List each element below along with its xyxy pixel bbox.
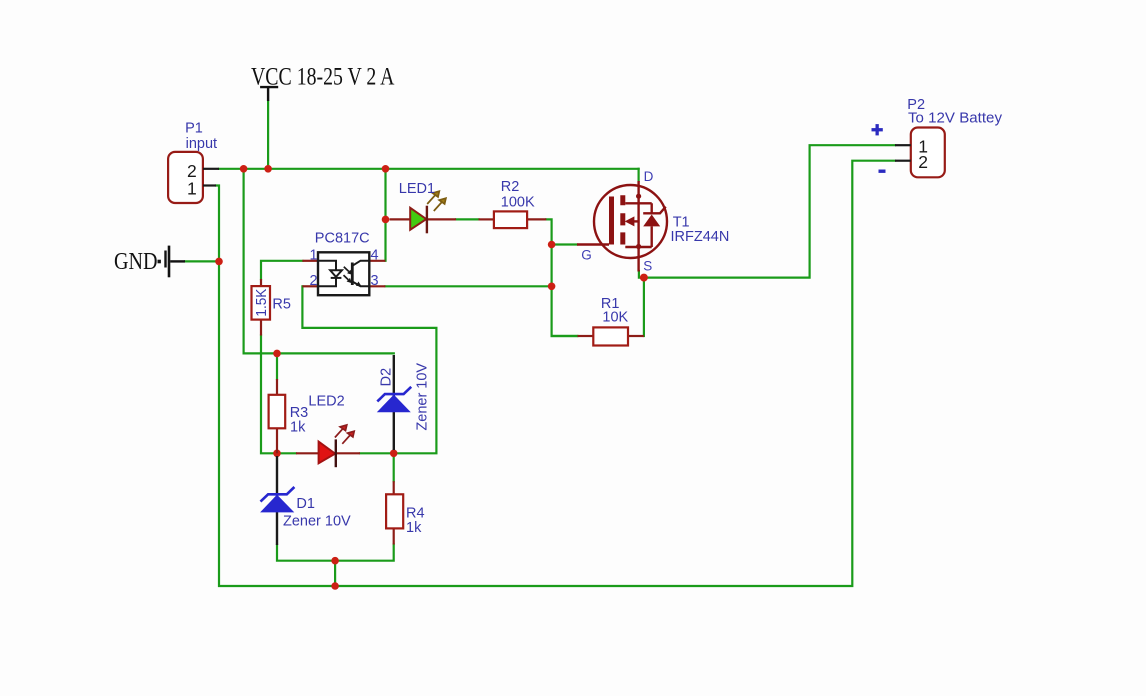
svg-text:2: 2 — [310, 273, 318, 289]
connector P2 — [872, 97, 1003, 177]
wire R4 bottom to row — [277, 545, 394, 561]
wire R2 to gate column — [546, 219, 577, 336]
transistor T1 labels — [581, 169, 729, 273]
node LED2 cathode — [390, 450, 398, 458]
wire LED1 row green part — [456, 218, 479, 220]
wire VCC drop — [267, 101, 269, 169]
wire R1 left green — [552, 335, 578, 337]
svg-text:D2: D2 — [379, 368, 395, 387]
svg-text:4: 4 — [371, 248, 379, 264]
resistor R2 — [479, 179, 547, 228]
VCC supply symbol — [260, 87, 278, 101]
resistor R4 — [386, 481, 424, 544]
wire R1 right up to source — [643, 278, 645, 336]
svg-text:PC817C: PC817C — [315, 230, 370, 246]
node VCC row LED branch — [382, 165, 390, 173]
node LED1 anode — [382, 216, 390, 224]
wire R5 bottom down to LED2 row — [261, 336, 277, 454]
svg-text:1: 1 — [310, 248, 318, 264]
svg-text:To 12V Battey: To 12V Battey — [908, 111, 1003, 127]
JUNCTION DOTS — [215, 165, 648, 590]
node bottom mid lower — [331, 582, 339, 590]
wire mid bottom drop — [334, 561, 336, 586]
wire R4 top — [393, 453, 395, 481]
ground symbol — [158, 246, 186, 278]
wire opto pin2 down right down to LED2 cathode node — [302, 286, 436, 453]
svg-text:P1: P1 — [185, 121, 203, 137]
svg-text:VCC 18-25 V 2 A: VCC 18-25 V 2 A — [251, 64, 395, 91]
node bottom mid upper — [331, 557, 339, 565]
wire drain top green — [637, 169, 639, 181]
svg-text:D: D — [644, 169, 654, 184]
svg-text:Zener 10V: Zener 10V — [283, 514, 351, 530]
resistor R1 — [578, 296, 644, 346]
svg-text:G: G — [581, 248, 592, 263]
svg-text:LED2: LED2 — [308, 393, 344, 409]
svg-text:R5: R5 — [272, 296, 291, 312]
svg-text:1k: 1k — [406, 520, 422, 536]
svg-text:R2: R2 — [501, 179, 520, 195]
svg-text:100K: 100K — [501, 194, 535, 210]
svg-text:Zener 10V: Zener 10V — [415, 363, 431, 431]
node VCC row vcc — [264, 165, 272, 173]
svg-text:1.5K: 1.5K — [254, 288, 270, 316]
svg-text:LED1: LED1 — [399, 181, 435, 197]
node GND — [215, 258, 223, 266]
svg-text:1: 1 — [187, 179, 197, 199]
wire opto pin1 to R5 top — [261, 261, 302, 279]
wire left branch x243 down and row to D2 — [244, 169, 394, 354]
svg-text:input: input — [186, 136, 217, 152]
wire top VCC row — [219, 168, 639, 170]
connector P1 — [168, 121, 219, 203]
diode D1 zener — [260, 456, 351, 545]
svg-text:3: 3 — [371, 273, 379, 289]
LED LED1 — [390, 181, 457, 233]
transistor T1 MOSFET — [577, 181, 667, 272]
node LED2 anode — [273, 450, 281, 458]
optocoupler U1 PC817C — [302, 230, 385, 295]
wire LED2 row right green — [360, 452, 394, 454]
resistor R3 — [269, 379, 309, 453]
node VCC row left — [240, 165, 248, 173]
wire source pin green jog — [639, 271, 644, 278]
wire P1 pin1 to bottom row to P2 pin2 — [216, 161, 895, 586]
wire opto pin3 row — [385, 285, 551, 287]
svg-text:IRFZ44N: IRFZ44N — [671, 229, 730, 245]
svg-text:10K: 10K — [602, 309, 628, 325]
diode D2 zener — [377, 355, 431, 450]
wire x385 vcc to opto pin4 — [384, 169, 386, 261]
resistor R5 — [252, 279, 291, 336]
wire gate lead green — [552, 243, 577, 245]
node gate — [548, 241, 556, 249]
svg-text:GND: GND — [114, 249, 158, 275]
wire R3 branch — [276, 353, 278, 379]
node opto pin3 — [548, 283, 556, 291]
node R3 top — [273, 350, 281, 358]
svg-text:R4: R4 — [406, 505, 425, 521]
wire source row to P2 pin1 — [644, 145, 895, 277]
wire GND to node — [185, 260, 219, 262]
svg-text:D1: D1 — [296, 496, 315, 512]
node source — [640, 274, 648, 282]
svg-text:2: 2 — [918, 152, 928, 172]
svg-text:S: S — [643, 259, 652, 274]
LED LED2 — [296, 393, 360, 467]
svg-text:1k: 1k — [290, 420, 306, 436]
wire LED2 row left green — [277, 452, 296, 454]
